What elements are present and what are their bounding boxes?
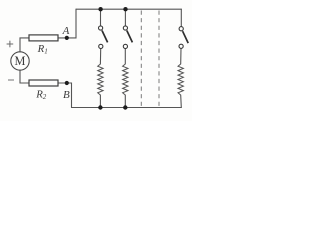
node A dot bbox=[65, 36, 69, 40]
wire branch 3 resistor bottom stub bbox=[180, 95, 183, 108]
wire branch 1 top stub bbox=[100, 9, 102, 26]
wire branch 3 lower stub bbox=[180, 49, 182, 65]
switch S3 upper terminal bbox=[179, 27, 183, 31]
wire branch 2 resistor bottom stub bbox=[124, 95, 126, 108]
wire motor bottom to R2 bbox=[20, 70, 29, 83]
junction dot bottom branch 2 bbox=[123, 105, 127, 109]
switch S1 lower terminal bbox=[99, 44, 103, 48]
minus polarity mark bbox=[8, 79, 14, 81]
svg-text:R2: R2 bbox=[35, 88, 47, 101]
resistor R2 box bbox=[29, 80, 58, 86]
svg-text:B: B bbox=[63, 89, 70, 101]
junction dot top branch 2 bbox=[123, 7, 127, 11]
wire node B to bottom bus corner bbox=[58, 83, 72, 108]
switch S2 blade bbox=[127, 31, 133, 43]
svg-text:A: A bbox=[62, 25, 70, 37]
switch S2 lower terminal bbox=[123, 44, 127, 48]
node B dot bbox=[65, 81, 69, 85]
junction dot bottom branch 1 bbox=[98, 105, 102, 109]
wire branch 2 lower stub bbox=[124, 49, 126, 64]
switch S3 blade bbox=[183, 31, 189, 43]
wire branch 2 top stub bbox=[124, 9, 126, 26]
junction dot top branch 1 bbox=[98, 7, 102, 11]
plus polarity mark bbox=[7, 41, 14, 48]
svg-text:M: M bbox=[15, 54, 26, 68]
switch S2 upper terminal bbox=[123, 26, 127, 30]
wire branch 1 lower stub bbox=[99, 49, 101, 64]
bottom bus wire bbox=[72, 107, 182, 109]
resistor zigzag branch 2 bbox=[123, 64, 128, 95]
switch S3 lower terminal bbox=[179, 44, 183, 48]
wire R1 to node A to top bus corner bbox=[58, 9, 76, 38]
dashed continuation line 2 bbox=[158, 11, 160, 107]
motor M1 circle bbox=[11, 52, 29, 70]
svg-text:R1: R1 bbox=[37, 43, 48, 56]
wire branch 3 top drop bbox=[180, 9, 182, 26]
wire branch 1 resistor bottom stub bbox=[99, 95, 101, 108]
wire motor top to R1 bbox=[20, 38, 29, 52]
dashed continuation line 1 bbox=[140, 11, 142, 107]
resistor zigzag branch 3 bbox=[178, 64, 183, 95]
switch S1 upper terminal bbox=[99, 26, 103, 30]
resistor R1 box bbox=[29, 35, 58, 41]
resistor zigzag branch 1 bbox=[98, 64, 103, 95]
switch S1 blade bbox=[102, 31, 108, 43]
top bus wire bbox=[76, 8, 181, 10]
